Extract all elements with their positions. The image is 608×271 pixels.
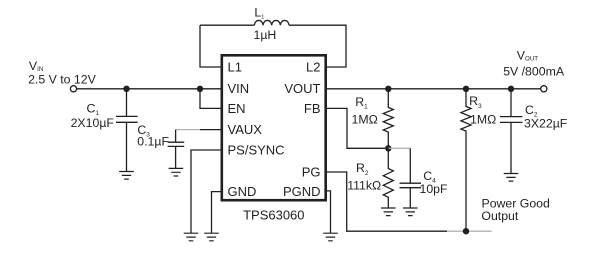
wire: top loop right to L2 pin xyxy=(289,25,346,67)
node: junction dot EN branch xyxy=(197,86,203,92)
wire: power good line gray segment xyxy=(447,230,492,232)
svg-text:R1: R1 xyxy=(355,95,368,111)
wire: output rail VOUT xyxy=(326,88,541,90)
capacitor C2 xyxy=(500,89,523,174)
wire: input rail VIN xyxy=(77,88,221,90)
resistor R1 xyxy=(383,89,393,149)
ground: C3 xyxy=(169,168,184,176)
wire: L1 pin to top loop left xyxy=(200,25,221,67)
wire: VAUX to C3 (black part) xyxy=(200,129,221,131)
node: junction dot R3 bottom / PG xyxy=(463,228,469,234)
svg-text:PG: PG xyxy=(302,165,321,180)
svg-text:5V /800mA: 5V /800mA xyxy=(503,65,565,79)
svg-text:1MΩ: 1MΩ xyxy=(352,113,378,127)
wire: top loop left horizontal xyxy=(200,24,254,26)
svg-text:VOUT: VOUT xyxy=(284,81,320,96)
node: junction dot R3 top xyxy=(463,86,469,92)
node: junction dot C2 top xyxy=(508,86,514,92)
capacitor C3 xyxy=(168,130,185,169)
svg-text:C1: C1 xyxy=(87,102,100,118)
svg-text:EN: EN xyxy=(228,101,246,116)
svg-text:3X22µF: 3X22µF xyxy=(524,117,568,131)
inductor L 1uH xyxy=(254,20,289,25)
ground: GND pin xyxy=(204,233,219,241)
wire: PG pin to power good line xyxy=(326,172,447,231)
terminal: VIN input xyxy=(70,86,76,92)
wire: GND pin to ground xyxy=(212,192,221,234)
ground: C1 xyxy=(119,172,134,180)
svg-text:R2: R2 xyxy=(356,161,369,177)
terminal: VOUT output xyxy=(541,86,547,92)
node: junction dot R1 top xyxy=(385,86,391,92)
capacitor C1 xyxy=(116,89,138,172)
svg-text:111kΩ: 111kΩ xyxy=(347,179,381,193)
node: FB junction dot xyxy=(385,145,391,151)
svg-text:2.5 V to 12V: 2.5 V to 12V xyxy=(28,72,96,86)
svg-text:VOUT: VOUT xyxy=(517,49,538,63)
wire: FB node to C4 (gray part) xyxy=(388,147,410,149)
svg-text:PGND: PGND xyxy=(283,184,321,199)
svg-text:VIN: VIN xyxy=(228,81,250,96)
ground: PGND xyxy=(323,233,338,241)
capacitor C4 xyxy=(400,183,422,208)
svg-text:VIN: VIN xyxy=(29,59,43,73)
wire: FB pin to FB node xyxy=(326,108,388,148)
svg-text:1µH: 1µH xyxy=(254,28,277,42)
ground: PS/SYNC xyxy=(184,233,199,241)
resistor R3 xyxy=(461,89,471,231)
IC U1 TPS63060 body xyxy=(222,55,326,200)
svg-text:L1: L1 xyxy=(254,6,264,21)
wire: FB node to C4 vertical xyxy=(409,148,411,183)
wire: PS/SYNC to ground xyxy=(191,150,221,233)
wire: VAUX to C3 (gray part) xyxy=(176,129,200,131)
ground: C4 xyxy=(403,208,418,216)
ground: R2 xyxy=(381,208,396,216)
node: junction dot C1/VIN rail xyxy=(123,86,129,92)
svg-text:L1: L1 xyxy=(228,60,242,75)
wire: EN branch xyxy=(200,89,221,109)
svg-text:TPS63060: TPS63060 xyxy=(243,208,304,223)
svg-text:2X10µF: 2X10µF xyxy=(71,116,115,130)
svg-text:FB: FB xyxy=(304,101,321,116)
svg-text:VAUX: VAUX xyxy=(228,122,263,137)
resistor R2 xyxy=(383,148,393,208)
svg-text:GND: GND xyxy=(228,184,257,199)
svg-text:10pF: 10pF xyxy=(420,182,449,196)
svg-text:L2: L2 xyxy=(306,60,320,75)
svg-text:0.1µF: 0.1µF xyxy=(137,134,169,148)
wire: PGND pin to ground xyxy=(326,191,331,233)
ground: C2 xyxy=(504,174,519,182)
svg-text:R3: R3 xyxy=(469,94,482,110)
svg-text:Output: Output xyxy=(481,209,518,223)
svg-text:1MΩ: 1MΩ xyxy=(470,113,496,127)
svg-text:PS/SYNC: PS/SYNC xyxy=(228,143,285,158)
